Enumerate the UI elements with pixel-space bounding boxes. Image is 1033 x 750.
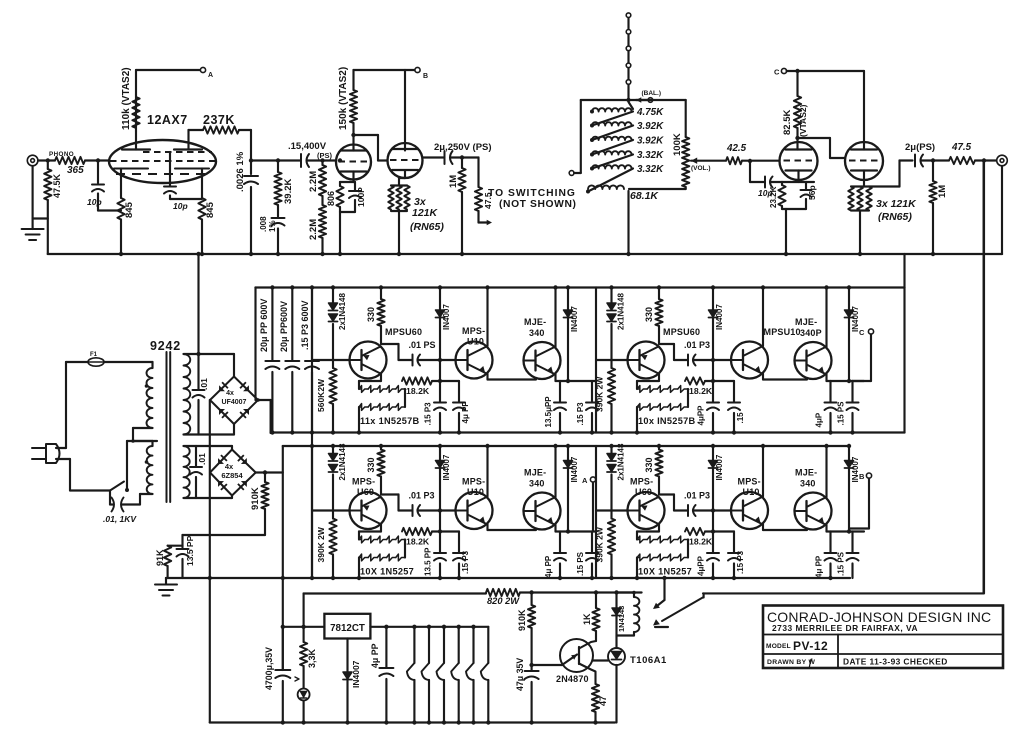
transistor 2N4870 UJT — [560, 639, 593, 672]
resistor 47.5K — [47, 161, 49, 170]
switch wire to winding — [126, 441, 128, 490]
balance wiper — [636, 99, 648, 101]
svg-text:100K: 100K — [672, 133, 683, 156]
ladder resistor 3.32K — [590, 153, 594, 157]
svg-text:2x1N4148: 2x1N4148 — [338, 293, 347, 330]
jack ground stem — [1001, 166, 1003, 254]
V2b plate wire — [404, 70, 406, 151]
svg-text:MPS-: MPS- — [738, 477, 761, 487]
block edge at 596 — [595, 288, 597, 433]
resistor 39.2K with .008 cap — [276, 158, 280, 162]
svg-text:(BAL.): (BAL.) — [642, 90, 662, 97]
transistor Q1 — [596, 359, 628, 361]
MJE cap A — [827, 530, 865, 532]
svg-text:3.32K: 3.32K — [637, 164, 664, 175]
resistor 390K 2W — [608, 368, 615, 404]
selector contact chain — [627, 15, 629, 100]
title divider vertical — [837, 635, 839, 669]
delay supply line — [303, 594, 305, 627]
svg-text:4μPP: 4μPP — [697, 555, 706, 576]
MJE cap A — [827, 380, 865, 382]
svg-text:(VOL.): (VOL.) — [691, 165, 711, 172]
MJE cap B — [591, 381, 593, 402]
terminal B lower right block — [868, 479, 870, 529]
resistor 47.5 output — [949, 157, 975, 164]
svg-text:68.1K: 68.1K — [630, 190, 659, 202]
Q2 collector wire — [486, 446, 488, 497]
zener chain — [637, 530, 659, 532]
svg-text:U10: U10 — [467, 487, 484, 497]
MJE cap A — [556, 380, 597, 382]
Q3 emitter wire — [825, 525, 827, 532]
AC plug — [32, 447, 46, 449]
mid cap A — [439, 532, 441, 553]
MJE cap B — [591, 532, 593, 553]
block edge at 312 — [311, 288, 313, 433]
svg-text:MJE-: MJE- — [795, 317, 817, 327]
Q2 emitter to Q3 base — [486, 374, 488, 380]
svg-text:121K: 121K — [412, 207, 439, 219]
svg-text:330: 330 — [366, 457, 376, 472]
gate wire — [593, 659, 608, 661]
svg-text:T106A1: T106A1 — [630, 655, 667, 666]
svg-text:U10: U10 — [467, 337, 484, 347]
svg-text:6Z854: 6Z854 — [221, 471, 243, 480]
resistor 330 — [380, 446, 382, 450]
regulator 7812CT — [324, 614, 370, 639]
svg-text:U60: U60 — [357, 487, 374, 497]
svg-text:1K: 1K — [582, 613, 592, 625]
svg-text:4μPP: 4μPP — [697, 405, 706, 426]
svg-text:C: C — [859, 328, 865, 337]
svg-text:.15 P3: .15 P3 — [736, 550, 745, 574]
svg-text:.0026 1%: .0026 1% — [235, 151, 246, 192]
svg-text:UF4007: UF4007 — [222, 399, 247, 406]
resistor 1K — [594, 590, 598, 594]
svg-text:2x1N4148: 2x1N4148 — [617, 293, 626, 330]
transistor Q2 — [731, 492, 768, 529]
svg-text:7812CT: 7812CT — [330, 623, 365, 634]
svg-text:.01, 1KV: .01, 1KV — [103, 514, 137, 524]
block edge at 596 — [595, 446, 597, 578]
svg-text:(PS): (PS) — [317, 151, 333, 160]
secondary winding lower — [184, 446, 190, 498]
svg-text:4μ PP: 4μ PP — [544, 555, 553, 578]
coupling wire V2a plate to V2b grid — [354, 134, 379, 136]
capacitor 4700u 35V — [282, 627, 284, 669]
bridge rectifier 4x 6Z854 — [210, 450, 256, 496]
svg-text:110k (VTAS2): 110k (VTAS2) — [121, 67, 132, 130]
coupling cap .01 — [658, 342, 660, 345]
capacitor .0026 1% — [250, 161, 252, 175]
svg-text:MPS-: MPS- — [630, 477, 653, 487]
svg-text:9242: 9242 — [150, 339, 181, 353]
resistor 18.2K — [402, 377, 432, 384]
filter cap 20u PP 600V no.1 — [271, 288, 273, 361]
V2b cathode resistors 3x121K — [404, 171, 406, 178]
capacitor 56p — [805, 182, 807, 190]
svg-text:330: 330 — [366, 307, 376, 322]
transistor Q1 — [596, 509, 628, 511]
svg-text:.01: .01 — [197, 453, 207, 465]
diode IN4007 no.2 — [848, 288, 850, 382]
svg-text:4μP: 4μP — [815, 412, 824, 427]
Q3 collector wire — [825, 446, 827, 498]
attenuator ladder resistors — [629, 102, 634, 109]
mute wire — [703, 593, 705, 597]
svg-text:MJE-: MJE- — [524, 468, 546, 478]
svg-text:10X 1N5257: 10X 1N5257 — [638, 567, 692, 577]
balance node — [626, 98, 630, 102]
mid cap A — [439, 381, 441, 402]
power switch — [110, 482, 124, 491]
svg-text:B: B — [859, 472, 865, 481]
svg-text:845: 845 — [205, 201, 216, 218]
bridge upper AC wires — [233, 354, 235, 377]
Q2 collector wire — [762, 446, 764, 497]
diode IN4007 no.1 — [439, 288, 441, 382]
Q3 emitter wire — [825, 374, 827, 381]
transistor Q2 — [456, 492, 493, 529]
svg-text:56p: 56p — [807, 185, 817, 200]
diode pair 2x1N4148 (390K 2W) — [332, 446, 334, 454]
wire to terminal B — [354, 69, 416, 71]
resistor 2.2M lower — [321, 196, 323, 205]
svg-text:1M: 1M — [937, 185, 948, 198]
svg-text:.15 PS: .15 PS — [837, 401, 846, 426]
mid cap B — [713, 530, 734, 532]
ground — [22, 228, 44, 230]
svg-text:IN4007: IN4007 — [351, 660, 361, 688]
svg-text:3.92K: 3.92K — [637, 136, 664, 147]
resistor 1M output — [932, 161, 934, 182]
MJE cap B — [851, 381, 853, 402]
svg-text:10x IN5257B: 10x IN5257B — [638, 416, 696, 426]
svg-text:MPS-: MPS- — [462, 326, 485, 336]
resistor 18.2K — [685, 528, 705, 535]
svg-text:20μ PP 600V: 20μ PP 600V — [259, 299, 269, 352]
svg-text:390K 2W: 390K 2W — [595, 526, 605, 562]
resistor 18.2K — [402, 528, 432, 535]
zener chain — [359, 380, 381, 382]
resistor 910K bias — [264, 473, 266, 483]
svg-text:MPS-: MPS- — [352, 477, 375, 487]
resistor 150k plate load — [352, 70, 354, 90]
svg-text:390K 2W: 390K 2W — [595, 376, 605, 412]
bottom bus — [210, 721, 615, 723]
svg-text:2μ(PS): 2μ(PS) — [905, 142, 935, 153]
diode IN4007 no.1 — [712, 446, 714, 532]
svg-text:PV-12: PV-12 — [793, 639, 828, 653]
transistor Q3 MJE-340 — [795, 342, 832, 379]
svg-text:10X 1N5257: 10X 1N5257 — [360, 567, 414, 577]
V1 right cathode — [175, 167, 209, 169]
svg-text:IN4007: IN4007 — [442, 454, 451, 480]
svg-text:(RN65): (RN65) — [878, 211, 912, 223]
volume pot 100K — [685, 100, 687, 137]
7812 output wire — [370, 626, 488, 628]
mute line vertical — [982, 158, 986, 162]
resistor 1M stage2 — [460, 155, 464, 159]
mid cap B — [440, 530, 459, 532]
svg-text:11x 1N5257B: 11x 1N5257B — [360, 416, 420, 426]
block edge at 312 — [311, 446, 313, 578]
V1 grid dashes — [143, 151, 212, 153]
svg-text:42.5: 42.5 — [726, 143, 747, 154]
Q3 emitter wire — [554, 374, 556, 381]
svg-text:.01 P3: .01 P3 — [684, 491, 710, 501]
diode 1N4148 relay — [615, 593, 617, 638]
capacitor 2u 250V output — [423, 156, 445, 158]
ladder resistor 3.92K — [590, 124, 594, 128]
diode IN4007 no.2 — [567, 446, 569, 532]
wire C to plates — [787, 70, 865, 72]
svg-text:.008: .008 — [259, 216, 268, 232]
capacitor 10p stage3 — [748, 159, 752, 163]
svg-text:.15 P3 600V: .15 P3 600V — [300, 300, 310, 350]
capacitor .15 400V — [300, 154, 302, 167]
svg-text:.01 P3: .01 P3 — [409, 491, 435, 501]
svg-text:47: 47 — [598, 696, 608, 706]
svg-text:1M: 1M — [448, 175, 459, 188]
Q1 emitter wire — [658, 374, 660, 382]
svg-text:B: B — [423, 73, 428, 80]
svg-text:20μ PP600V: 20μ PP600V — [279, 301, 289, 352]
ladder box top — [581, 99, 686, 101]
svg-text:3.32K: 3.32K — [637, 150, 664, 161]
zener chain — [637, 380, 659, 382]
resistor 237K — [187, 130, 189, 131]
wire bridge2 to lower rail — [282, 446, 284, 670]
svg-text:IN4007: IN4007 — [570, 306, 579, 332]
tube V1 12AX7 envelope — [109, 140, 216, 183]
svg-text:MPSU60: MPSU60 — [385, 327, 422, 337]
svg-text:23.2K: 23.2K — [769, 186, 778, 208]
ladder box left — [580, 100, 582, 173]
svg-text:IN4007: IN4007 — [442, 304, 451, 330]
svg-text:(RN65): (RN65) — [410, 221, 444, 233]
svg-text:.01: .01 — [199, 378, 209, 390]
resistor 2.2M upper — [320, 158, 324, 162]
svg-text:47μ 35V: 47μ 35V — [515, 658, 525, 691]
svg-text:4x: 4x — [225, 462, 234, 471]
V3b plate wire — [863, 71, 865, 150]
svg-text:ƒ: ƒ — [808, 657, 813, 667]
transistor Q3 MJE-340 — [524, 493, 561, 530]
resistor 47.5 to switching — [462, 156, 479, 158]
svg-text:330: 330 — [644, 457, 654, 472]
svg-text:IN4007: IN4007 — [715, 454, 724, 480]
primary winding lower — [133, 427, 153, 429]
resistor 91K divider — [168, 545, 183, 547]
svg-text:13.5 PP: 13.5 PP — [424, 547, 433, 576]
relay contact lower — [653, 619, 660, 625]
Q1 emitter wire — [380, 524, 382, 532]
resistor 330 — [658, 288, 660, 300]
secondary lower leads — [184, 445, 233, 447]
resistor 820 2W — [486, 589, 520, 596]
volume wiper — [691, 158, 697, 164]
Q3 collector wire — [554, 446, 556, 498]
coupling cap .01 — [658, 492, 660, 495]
wire bridge left to ground rail — [209, 400, 211, 578]
resistor 330 — [658, 446, 660, 450]
bridge rectifier 4x UF4007 — [210, 377, 258, 425]
svg-text:390K 2W: 390K 2W — [316, 526, 326, 562]
7812 input wire — [283, 626, 325, 628]
V2a plate wire — [352, 135, 354, 151]
wire to UJT emitter — [532, 664, 562, 666]
V1 right plate — [174, 148, 202, 150]
svg-text:91K: 91K — [155, 549, 165, 566]
Q2 emitter to Q3 base — [762, 374, 764, 380]
ladder resistor 4.75K — [590, 110, 594, 114]
svg-text:DATE 11-3-93 CHECKED: DATE 11-3-93 CHECKED — [843, 657, 948, 667]
Q1 emitter wire — [658, 524, 660, 532]
svg-text:(NOT SHOWN): (NOT SHOWN) — [499, 199, 577, 210]
LED — [298, 689, 310, 701]
svg-text:IN4007: IN4007 — [715, 304, 724, 330]
svg-text:MPS-: MPS- — [462, 477, 485, 487]
bridge lower DC wire right — [256, 471, 283, 473]
Q3 emitter wire — [554, 525, 556, 532]
svg-text:12AX7: 12AX7 — [147, 113, 188, 127]
wire to terminal A — [135, 70, 137, 95]
svg-text:4μ PP: 4μ PP — [370, 643, 380, 668]
lower return rail / ground rail — [166, 577, 850, 579]
svg-text:TO SWITCHING: TO SWITCHING — [488, 188, 576, 199]
svg-text:MPSU60: MPSU60 — [663, 327, 700, 337]
diode IN4007 no.2 — [848, 446, 850, 532]
wire jack to node — [38, 159, 55, 161]
svg-text:U60: U60 — [635, 487, 652, 497]
svg-text:13.5μPP: 13.5μPP — [544, 396, 553, 428]
svg-text:U10: U10 — [743, 487, 760, 497]
svg-text:.15 P3: .15 P3 — [424, 402, 433, 426]
resistor 330 — [380, 288, 382, 300]
svg-text:10p: 10p — [173, 201, 188, 211]
svg-text:18.2K: 18.2K — [406, 386, 430, 396]
resistor 390K 2W — [329, 519, 336, 555]
resistor 845 right — [198, 198, 205, 220]
svg-text:MJE-: MJE- — [524, 317, 546, 327]
svg-text:2μ,250V (PS): 2μ,250V (PS) — [434, 142, 492, 153]
mid cap B — [440, 380, 459, 382]
resistor 390K 2W — [608, 519, 615, 555]
svg-text:910K: 910K — [250, 487, 261, 510]
V3a plate wire — [796, 138, 798, 150]
svg-text:MODEL: MODEL — [766, 643, 791, 650]
wire secondary upper leads — [184, 353, 235, 355]
relay contact upper — [663, 578, 665, 600]
relay armature — [662, 597, 704, 621]
bridge lower AC wires — [231, 446, 233, 450]
zener chain — [359, 530, 381, 532]
Q2 emitter to Q3 base — [762, 524, 764, 530]
transistor Q2 — [731, 342, 768, 379]
svg-text:47.5: 47.5 — [951, 142, 972, 153]
filter cap .15 P3 600V — [311, 288, 313, 361]
svg-text:2.2M: 2.2M — [308, 171, 319, 192]
upper return rail — [271, 431, 905, 433]
filter cap 20u PP600V no.2 — [291, 288, 293, 361]
svg-text:910K: 910K — [517, 609, 527, 631]
svg-text:C: C — [774, 68, 780, 77]
resistor 47 — [592, 684, 599, 712]
transistor Q2 — [456, 342, 493, 379]
upper B+ rail — [256, 286, 905, 288]
output jack J2 — [997, 155, 1008, 166]
svg-text:2x1N4148: 2x1N4148 — [617, 443, 626, 480]
resistor 110k plate load — [135, 95, 137, 131]
svg-text:18.2K: 18.2K — [406, 537, 430, 547]
MJE cap A — [556, 530, 597, 532]
resistor 560K2W — [329, 368, 336, 404]
svg-text:47.5K: 47.5K — [52, 173, 62, 198]
capacitor .01 snubber lower — [195, 446, 197, 466]
Q3 collector wire — [554, 288, 556, 348]
svg-text:3,3K: 3,3K — [307, 648, 317, 668]
svg-text:18.2K: 18.2K — [689, 386, 713, 396]
tube V3a — [780, 142, 818, 180]
Q1 emitter wire — [380, 374, 382, 382]
wire plate to coupling node — [250, 130, 252, 161]
capacitor .01 1KV — [109, 491, 111, 505]
svg-text:IN4007: IN4007 — [570, 456, 579, 482]
diode IN4007 no.1 — [439, 446, 441, 532]
terminal A — [200, 67, 205, 72]
plug wires — [56, 447, 66, 449]
transistor Q1 — [312, 509, 350, 511]
capacitor 13.5PP divider — [181, 535, 183, 548]
svg-text:.01 P3: .01 P3 — [684, 340, 710, 350]
title block frame — [763, 606, 1003, 669]
svg-text:100P: 100P — [356, 187, 366, 207]
thyristor T106A1 — [608, 648, 625, 665]
diode IN4007 no.1 — [712, 288, 714, 382]
title divider 2 — [763, 653, 1003, 655]
coupling V3a to V3b grid — [798, 137, 831, 139]
resistor 82.5K plate load — [796, 71, 798, 96]
capacitor 2u PS output — [914, 155, 916, 167]
svg-text:A: A — [208, 72, 213, 79]
svg-text:2N4870: 2N4870 — [556, 674, 589, 684]
resistor 18.2K — [685, 377, 705, 384]
wire 910K to divider — [183, 534, 266, 536]
ground bus — [48, 253, 1002, 255]
mid cap A — [712, 381, 714, 402]
svg-text:.15 P3: .15 P3 — [461, 550, 470, 574]
svg-text:365: 365 — [67, 165, 84, 176]
fuse F1 — [66, 361, 88, 363]
input terminal from switching — [569, 171, 574, 176]
tube V2a — [336, 145, 371, 180]
resistor 845 left — [117, 198, 124, 220]
svg-text:845: 845 — [124, 201, 135, 218]
resistor 3.3K LED — [303, 627, 305, 642]
tube V2b — [388, 143, 423, 178]
svg-text:3x 121K: 3x 121K — [876, 198, 917, 210]
coupling cap .01 — [380, 342, 382, 345]
resistor 365 — [55, 157, 85, 164]
primary winding upper — [151, 362, 153, 368]
svg-text:.15: .15 — [736, 412, 745, 424]
svg-text:4.75K: 4.75K — [636, 107, 664, 118]
wire HT feed from bus — [197, 254, 199, 354]
diode pair 2x1N4148 (390K 2W) — [610, 446, 612, 454]
ladder bottom wire — [629, 188, 686, 190]
V3a cathode network — [797, 171, 799, 183]
